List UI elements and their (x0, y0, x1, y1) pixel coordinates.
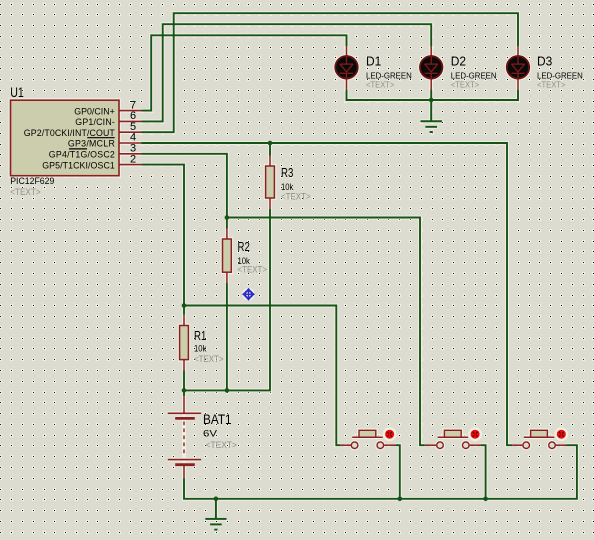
svg-text:10k: 10k (194, 344, 207, 354)
svg-text:2: 2 (130, 153, 136, 165)
svg-text:<TEXT>: <TEXT> (537, 80, 565, 90)
svg-text:D3: D3 (537, 53, 552, 68)
svg-text:R3: R3 (281, 165, 293, 180)
svg-text:<TEXT>: <TEXT> (451, 80, 479, 90)
svg-text:GP3/MCLR: GP3/MCLR (68, 139, 115, 149)
svg-text:GP4/T1G/OSC2: GP4/T1G/OSC2 (49, 150, 115, 160)
svg-text:GP2/T0CKI/INT/COUT: GP2/T0CKI/INT/COUT (24, 128, 116, 138)
svg-text:<TEXT>: <TEXT> (206, 440, 238, 450)
svg-text:<TEXT>: <TEXT> (238, 265, 268, 275)
svg-text:<TEXT>: <TEXT> (366, 80, 394, 90)
svg-text:<TEXT>: <TEXT> (281, 192, 311, 202)
svg-text:D2: D2 (451, 53, 466, 68)
svg-text:GP5/T1CKI/OSC1: GP5/T1CKI/OSC1 (42, 160, 115, 170)
svg-text:<TEXT>: <TEXT> (10, 187, 40, 197)
svg-text:R1: R1 (194, 328, 206, 343)
svg-text:R2: R2 (238, 239, 250, 254)
svg-text:D1: D1 (366, 53, 381, 68)
svg-text:GP0/CIN+: GP0/CIN+ (74, 106, 115, 116)
svg-text:10k: 10k (281, 182, 294, 192)
svg-text:BAT1: BAT1 (203, 412, 232, 427)
svg-text:U1: U1 (10, 85, 24, 100)
svg-text:<TEXT>: <TEXT> (194, 354, 224, 364)
svg-text:6V: 6V (203, 429, 217, 439)
svg-text:PIC12F629: PIC12F629 (10, 176, 54, 186)
svg-text:GP1/CIN-: GP1/CIN- (75, 117, 115, 127)
